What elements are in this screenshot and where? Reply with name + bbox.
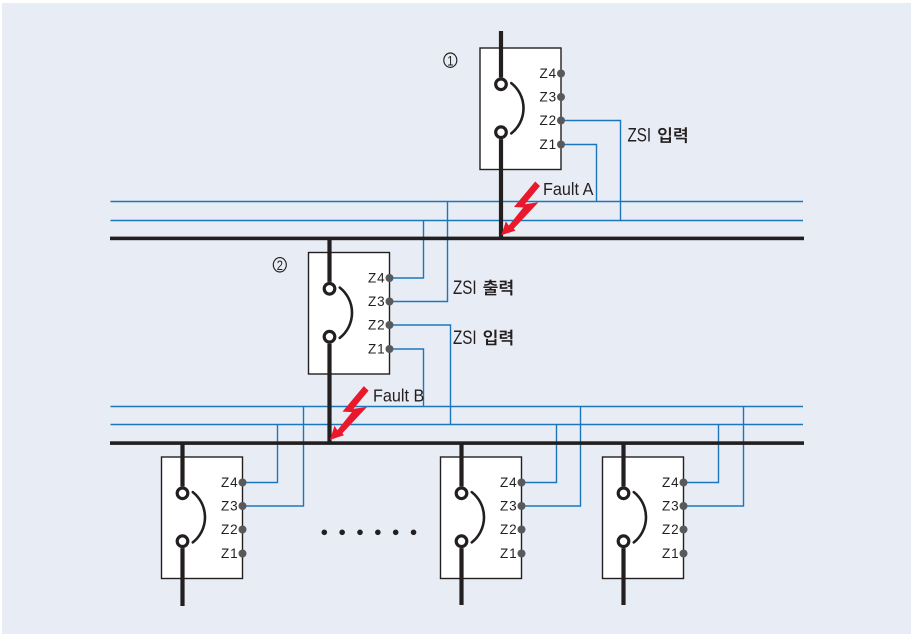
svg-text:Z1: Z1 — [662, 546, 680, 561]
svg-text:Z1: Z1 — [500, 546, 518, 561]
svg-text:Z3: Z3 — [221, 499, 239, 514]
svg-text:Z4: Z4 — [539, 66, 557, 81]
svg-text:Z4: Z4 — [662, 475, 680, 490]
svg-text:Z3: Z3 — [368, 294, 386, 309]
svg-text:Fault B: Fault B — [373, 386, 424, 406]
svg-text:Z2: Z2 — [662, 522, 680, 537]
svg-text:ZSI: ZSI — [628, 124, 652, 146]
svg-text:Fault A: Fault A — [543, 179, 594, 199]
svg-text:Z4: Z4 — [368, 271, 386, 286]
svg-text:ZSI: ZSI — [453, 276, 477, 298]
svg-text:Z2: Z2 — [500, 522, 518, 537]
svg-text:Z2: Z2 — [368, 318, 386, 333]
svg-text:Z3: Z3 — [500, 499, 518, 514]
svg-text:Z4: Z4 — [500, 475, 518, 490]
svg-text:Z1: Z1 — [368, 342, 386, 357]
svg-text:ZSI: ZSI — [453, 326, 477, 348]
svg-text:1: 1 — [447, 53, 453, 68]
svg-text:Z1: Z1 — [221, 546, 239, 561]
svg-text:Z3: Z3 — [662, 499, 680, 514]
svg-text:Z2: Z2 — [539, 113, 557, 128]
svg-text:Z3: Z3 — [539, 90, 557, 105]
svg-text:Z1: Z1 — [539, 137, 557, 152]
svg-text:2: 2 — [277, 258, 283, 273]
svg-text:Z4: Z4 — [221, 475, 239, 490]
svg-text:Z2: Z2 — [221, 522, 239, 537]
